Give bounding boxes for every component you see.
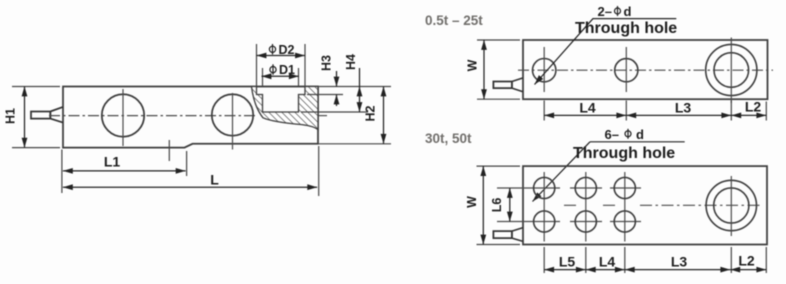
top plate outline bbox=[523, 40, 768, 99]
svg-text:L6: L6 bbox=[490, 198, 504, 213]
hole column line 1 bbox=[543, 172, 545, 242]
hole r1c2 bbox=[575, 177, 596, 198]
6-phi-d underline bbox=[590, 141, 685, 143]
dimension L4 (bottom view) bbox=[586, 269, 625, 271]
svg-text:H3: H3 bbox=[319, 55, 333, 71]
phi D2 label bbox=[269, 44, 275, 55]
dimension phi D1 bbox=[262, 68, 299, 86]
centerline right stub bbox=[318, 115, 327, 117]
hole column line 2 bbox=[585, 172, 587, 242]
bottom view centerline bbox=[564, 204, 762, 206]
hole 1 vertical centerline bbox=[543, 47, 545, 92]
svg-text:Through hole: Through hole bbox=[573, 145, 675, 162]
2-phi-d underline bbox=[593, 18, 677, 20]
circle 1 vertical centerline bbox=[122, 89, 124, 146]
dimension W (top view) bbox=[477, 40, 520, 99]
svg-text:L3: L3 bbox=[671, 253, 688, 269]
hole r2c3 bbox=[614, 211, 635, 232]
load button inner circle (bottom) bbox=[714, 188, 749, 223]
dimension L5 (bottom view) bbox=[544, 269, 586, 271]
svg-text:d: d bbox=[624, 4, 632, 19]
load button outer circle (bottom) bbox=[706, 180, 756, 230]
load button outer circle bbox=[706, 44, 757, 95]
svg-text:2–: 2– bbox=[598, 4, 612, 19]
main centerline bbox=[49, 115, 257, 117]
svg-text:6–: 6– bbox=[605, 127, 619, 142]
svg-text:D1: D1 bbox=[279, 63, 295, 77]
svg-text:H1: H1 bbox=[3, 108, 17, 124]
svg-text:30t, 50t: 30t, 50t bbox=[425, 131, 472, 146]
circle 2 vertical centerline bbox=[232, 93, 234, 150]
hole 2 vertical centerline bbox=[625, 47, 627, 92]
extension lines below bottom plate bbox=[544, 247, 766, 273]
small tick under body bbox=[168, 140, 170, 161]
bottom view cable gland bbox=[512, 228, 523, 242]
leader line to hole (bottom) bbox=[533, 142, 591, 202]
bottom view cable barrel bbox=[493, 231, 512, 238]
dimension H3 bbox=[336, 71, 338, 106]
svg-text:L4: L4 bbox=[579, 99, 596, 115]
dimension L3 (bottom view) bbox=[625, 269, 731, 271]
svg-text:d: d bbox=[636, 127, 644, 142]
phi D1 label bbox=[270, 64, 276, 75]
dimension L2 (bottom view) bbox=[730, 269, 766, 271]
load button vertical centerline (bottom) bbox=[730, 176, 732, 236]
svg-text:L2: L2 bbox=[738, 252, 755, 268]
svg-text:W: W bbox=[465, 59, 479, 71]
svg-text:L3: L3 bbox=[675, 99, 692, 115]
cable gland cone bbox=[50, 107, 63, 123]
svg-text:L1: L1 bbox=[104, 154, 121, 170]
hole row line top bbox=[497, 187, 641, 189]
svg-text:H2: H2 bbox=[363, 105, 377, 121]
bottom plate outline bbox=[523, 166, 767, 244]
dimension L2 (top view) bbox=[731, 114, 766, 116]
top view cable barrel bbox=[493, 82, 512, 89]
dimension L1 bbox=[62, 150, 187, 194]
dimension L bbox=[63, 146, 319, 196]
bottom extension line (right) bbox=[318, 143, 391, 145]
hole r2c2 bbox=[575, 211, 596, 232]
load button vertical centerline bbox=[730, 38, 732, 104]
svg-text:H4: H4 bbox=[344, 54, 358, 70]
svg-text:L4: L4 bbox=[599, 253, 616, 269]
svg-text:L: L bbox=[210, 172, 219, 188]
dimension H1 bbox=[12, 87, 60, 148]
hole column line 3 bbox=[624, 172, 626, 242]
svg-text:0.5t – 25t: 0.5t – 25t bbox=[425, 13, 483, 28]
leader line to hole bbox=[535, 19, 594, 85]
load cell body outline bbox=[63, 87, 318, 148]
dimension L4 (top view) bbox=[544, 114, 626, 116]
hole row line bottom bbox=[497, 221, 641, 223]
hole r1c1 bbox=[534, 177, 555, 198]
bolt hole circle 1 bbox=[102, 94, 144, 136]
hole 1 bbox=[533, 58, 556, 81]
dimension L3 (top view) bbox=[626, 114, 731, 116]
hole 2 bbox=[615, 59, 638, 82]
load button inner circle bbox=[714, 53, 749, 88]
bolt hole circle 2 bbox=[212, 94, 253, 135]
top view cable gland bbox=[512, 78, 523, 92]
svg-text:L5: L5 bbox=[559, 253, 576, 269]
cable connector barrel bbox=[31, 112, 50, 119]
hole r2c1 bbox=[534, 211, 555, 232]
dimension H2 bbox=[383, 87, 385, 144]
dimension L6 bbox=[509, 188, 511, 222]
svg-text:W: W bbox=[465, 196, 479, 208]
svg-text:Through hole: Through hole bbox=[575, 20, 677, 37]
svg-text:D2: D2 bbox=[279, 43, 295, 57]
ledge extension line bbox=[307, 94, 343, 96]
dimension phi D2 bbox=[257, 44, 306, 86]
extension lines below top plate bbox=[544, 101, 766, 121]
dimension H4 bbox=[359, 68, 361, 112]
dimension W (bottom view) bbox=[477, 166, 521, 244]
svg-text:L2: L2 bbox=[745, 98, 762, 114]
floor extension line bbox=[301, 111, 368, 113]
hole r1c3 bbox=[614, 177, 635, 198]
top view centerline bbox=[518, 69, 773, 71]
top surface extension line (right) bbox=[318, 86, 391, 88]
hatched cross-section of load button pocket bbox=[252, 87, 319, 130]
